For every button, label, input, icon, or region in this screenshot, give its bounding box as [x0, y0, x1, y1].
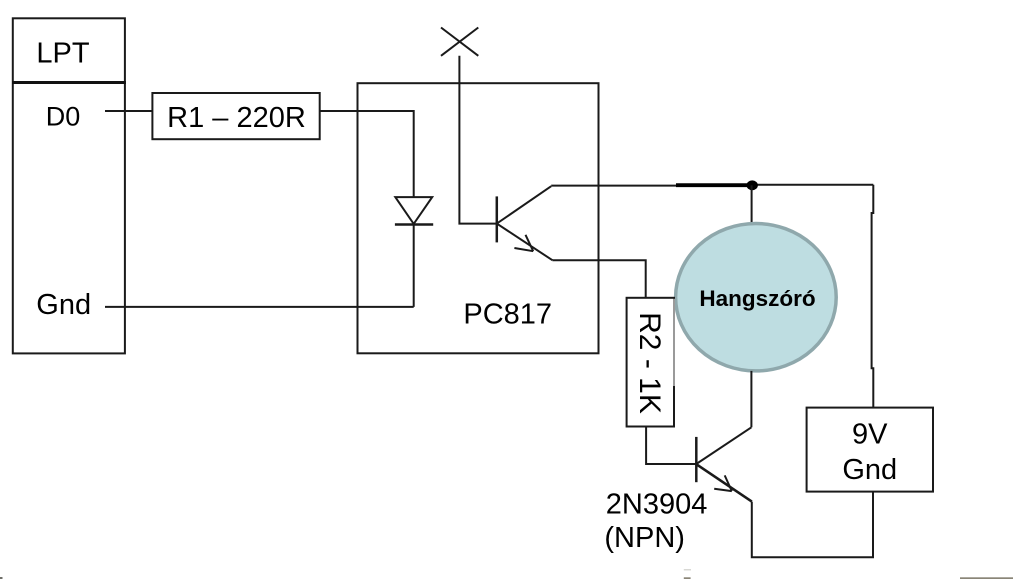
svg-text:Hangszóró: Hangszóró [699, 286, 815, 311]
wire diode cathode down [413, 225, 415, 307]
right rail wire to 9V [872, 185, 874, 408]
wire R1 to diode anode [320, 111, 414, 197]
wire Gnd to diode [105, 306, 414, 308]
wire emitter to R2 [552, 260, 645, 298]
artifact bottom-right gray bar [960, 577, 1013, 579]
transistor Q1 2N3904 [696, 427, 752, 501]
svg-text:2N3904: 2N3904 [606, 489, 708, 521]
speaker Hangszoro [676, 224, 837, 371]
wire X to phototransistor base [459, 56, 496, 224]
svg-text:(NPN): (NPN) [604, 522, 685, 554]
svg-text:PC817: PC817 [463, 298, 552, 330]
connector LPT [13, 18, 125, 353]
wire collector to junction [551, 185, 677, 187]
battery 9V Gnd [807, 408, 933, 492]
svg-text:LPT: LPT [36, 38, 89, 70]
junction dot [747, 180, 758, 190]
svg-text:D0: D0 [46, 101, 81, 131]
svg-text:R2 - 1K: R2 - 1K [633, 312, 666, 414]
wire Q1 emitter to bottom rail [752, 492, 873, 558]
LED D1 (inside PC817) [395, 197, 433, 224]
resistor R2 right edge gray overlap [673, 299, 675, 386]
X mark (no-connect) [441, 28, 478, 56]
LPT divider line [12, 81, 126, 84]
wire junction to right rail [752, 184, 873, 186]
artifact bottom-left gray mark [0, 577, 3, 579]
svg-text:Gnd: Gnd [36, 289, 91, 321]
wire junction to speaker top [751, 185, 753, 224]
svg-text:R1 – 220R: R1 – 220R [167, 102, 306, 134]
resistor R1 [152, 93, 319, 139]
svg-text:Gnd: Gnd [842, 454, 897, 486]
optocoupler U1 PC817 box [358, 83, 599, 353]
wire R2 to Q1 base [646, 427, 696, 465]
phototransistor (inside PC817) [497, 186, 553, 260]
resistor R2 [627, 298, 674, 427]
wire D0 to R1 [105, 110, 152, 112]
thick wire segment [676, 183, 751, 187]
wire speaker bottom to Q1 collector [750, 371, 752, 427]
artifact light gray dash [684, 569, 691, 571]
artifact dark gray blob [684, 577, 691, 579]
svg-text:9V: 9V [852, 418, 888, 450]
